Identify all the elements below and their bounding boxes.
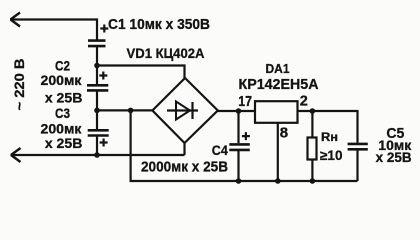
arrow bottom-left <box>11 148 21 162</box>
diode inside VD1 <box>167 102 198 120</box>
svg-text:DA1: DA1 <box>266 61 290 76</box>
svg-text:х 25В: х 25В <box>376 149 412 165</box>
node C4 top <box>236 108 242 114</box>
node C4 bus <box>236 178 242 184</box>
wire top input <box>10 20 97 41</box>
wire bottom input <box>11 154 185 156</box>
svg-text:C4: C4 <box>212 142 228 158</box>
svg-text:~ 220 В: ~ 220 В <box>11 59 27 111</box>
resistor Rn <box>308 111 317 181</box>
svg-text:2000мк х 25В: 2000мк х 25В <box>141 160 228 176</box>
wire pin 8 to bus <box>277 123 279 181</box>
wire link to bridge top <box>97 66 185 79</box>
svg-text:2: 2 <box>300 94 308 110</box>
plus C2 <box>99 72 107 80</box>
svg-text:8: 8 <box>280 124 288 141</box>
wire filter cap branch (2000mk) <box>131 110 358 181</box>
svg-text:C1 10мк х 350В: C1 10мк х 350В <box>108 17 210 33</box>
node filter cap junction <box>128 108 134 114</box>
capacitor C1 <box>88 41 106 66</box>
node rail mid <box>94 108 100 114</box>
wire bridge bottom to minus rail <box>183 143 185 155</box>
plus C3 <box>100 139 108 147</box>
node Rn bus <box>310 178 316 184</box>
svg-text:200мк: 200мк <box>41 73 82 88</box>
node rail top <box>94 63 100 69</box>
svg-text:C3: C3 <box>55 106 70 121</box>
svg-text:C2: C2 <box>55 59 70 74</box>
wire DA1 output <box>298 111 358 143</box>
plus C4 <box>242 132 250 140</box>
capacitor C4 <box>229 111 250 181</box>
node pin8 bus <box>275 178 281 184</box>
arrow top-left <box>11 13 21 27</box>
wire to bridge left corner <box>97 109 152 111</box>
capacitor C5 <box>348 144 368 181</box>
node rail bottom <box>94 152 100 158</box>
capacitor C3 <box>88 130 109 155</box>
svg-text:КР142ЕН5А: КР142ЕН5А <box>239 76 319 93</box>
svg-text:Rн: Rн <box>321 132 338 144</box>
svg-text:х 25В: х 25В <box>45 91 83 106</box>
svg-text:≥10: ≥10 <box>320 148 343 163</box>
plus C1 <box>100 25 108 33</box>
wire bridge right to DA1 input <box>218 110 255 112</box>
svg-text:VD1 КЦ402А: VD1 КЦ402А <box>127 45 205 61</box>
bridge rectifier VD1 <box>152 78 217 143</box>
svg-text:200мк: 200мк <box>41 122 82 137</box>
regulator DA1 box <box>255 101 298 123</box>
svg-text:17: 17 <box>238 94 252 110</box>
node Rn top <box>310 108 316 114</box>
capacitor C2 <box>87 66 108 130</box>
svg-text:х 25В: х 25В <box>45 136 83 151</box>
